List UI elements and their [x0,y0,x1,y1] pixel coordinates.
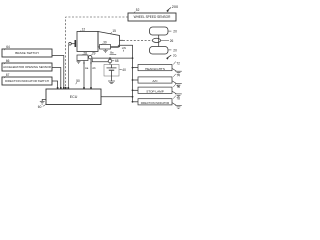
svg-text:LIN: LIN [122,46,126,50]
svg-text:A/C: A/C [152,79,158,83]
svg-text:15: 15 [112,29,116,33]
svg-text:STOP LAMP: STOP LAMP [146,90,164,94]
svg-text:72: 72 [176,61,180,65]
svg-text:BRAKE SWITCH: BRAKE SWITCH [15,51,39,55]
svg-text:29: 29 [92,51,96,55]
svg-text:Ba: Ba [110,50,114,54]
svg-text:20: 20 [173,30,177,34]
svg-text:200: 200 [172,5,178,9]
svg-text:Aa: Aa [85,66,89,70]
svg-text:28: 28 [83,51,87,55]
svg-text:WHEEL SPEED SENSOR: WHEEL SPEED SENSOR [134,15,171,19]
svg-text:ACCELERATOR OPENING SENSOR: ACCELERATOR OPENING SENSOR [3,65,51,69]
svg-text:64: 64 [6,45,10,49]
svg-text:70: 70 [173,54,177,58]
svg-text:DIRECTION INDICATOR: DIRECTION INDICATOR [141,101,170,105]
svg-text:67: 67 [6,73,10,77]
svg-text:30: 30 [103,41,107,45]
svg-text:76: 76 [176,85,180,89]
svg-text:66: 66 [6,59,10,63]
svg-text:DIRECTION INDICATOR SWITCH: DIRECTION INDICATOR SWITCH [5,79,49,83]
svg-text:12: 12 [82,27,86,31]
svg-text:74: 74 [176,74,180,78]
svg-text:50: 50 [76,79,80,83]
svg-text:68: 68 [115,59,119,63]
svg-text:26: 26 [170,39,174,43]
svg-text:20: 20 [173,48,177,52]
svg-text:Ab: Ab [92,66,96,70]
svg-text:HEADLIGHTS: HEADLIGHTS [145,67,165,71]
svg-text:78: 78 [176,97,180,101]
svg-text:ECU: ECU [70,95,78,99]
svg-text:40: 40 [122,68,126,72]
svg-text:60: 60 [38,105,42,109]
svg-text:52: 52 [136,8,140,12]
